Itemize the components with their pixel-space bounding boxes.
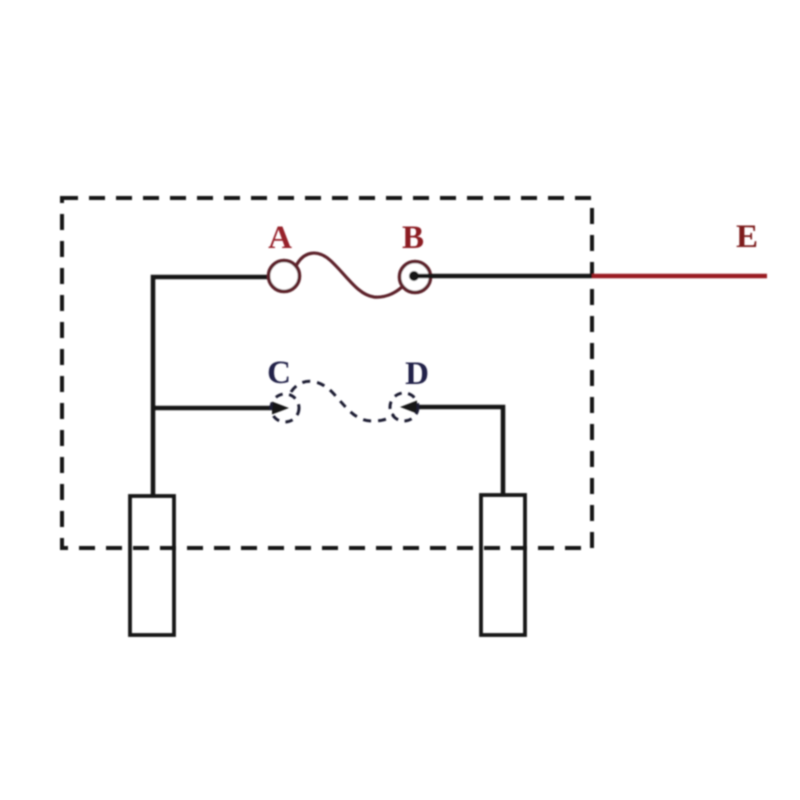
terminal block left (130, 496, 174, 635)
wire from node D right and down to right terminal block (413, 407, 503, 495)
svg-text:E: E (736, 219, 758, 255)
svg-text:C: C (267, 355, 291, 391)
wire left: top horizontal into node A and vertical down to left terminal block (153, 277, 267, 495)
svg-text:A: A (268, 220, 292, 256)
svg-text:D: D (405, 356, 429, 392)
terminal block right (481, 495, 525, 635)
S-curve cord between A and B (296, 253, 402, 297)
wire middle horizontal toward node C (153, 406, 276, 411)
wire from node B to enclosure edge (414, 274, 592, 279)
wire E outside enclosure (red) (592, 274, 767, 278)
dashed node D circle (390, 393, 418, 421)
svg-text:B: B (402, 220, 424, 256)
dashed node C circle (271, 394, 299, 422)
dashed S-curve cord between C and D (291, 381, 394, 421)
arrowhead into node D (400, 401, 417, 414)
dashed enclosure box (62, 198, 592, 548)
arrowhead into node C (272, 402, 289, 415)
node B circle (400, 262, 431, 293)
node B contact dot (409, 271, 419, 281)
node A circle (269, 261, 300, 292)
